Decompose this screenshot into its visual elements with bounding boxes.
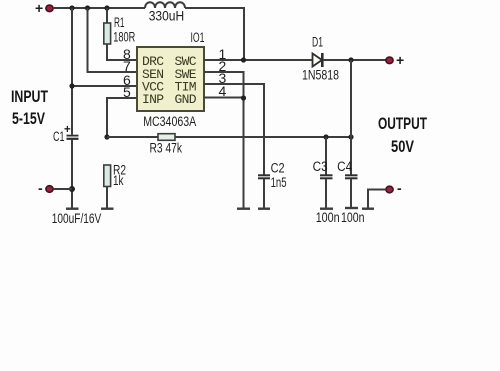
wire top rail left (53, 7, 145, 9)
ground bar pin2/4 (237, 207, 250, 209)
node junction pin1 / inductor (241, 57, 246, 62)
svg-text:C2: C2 (271, 161, 285, 176)
svg-text:C3: C3 (313, 159, 328, 174)
wire diode to output (323, 59, 390, 61)
wire pin 1 to diode (204, 59, 313, 61)
diode D1 (313, 53, 323, 67)
ground bar R2 (101, 207, 114, 209)
wire feedback right (175, 136, 351, 138)
ground bar C4 (345, 207, 358, 209)
node junction C1 / pin6 (69, 83, 74, 88)
svg-text:5-15V: 5-15V (12, 109, 45, 128)
input + terminal (46, 5, 53, 12)
svg-text:MC34063A: MC34063A (143, 114, 196, 129)
resistor R1 (104, 8, 137, 60)
svg-text:100n: 100n (316, 210, 340, 225)
capacitor C4 (345, 137, 358, 208)
ground bar C2 (258, 207, 270, 209)
node junction input minus (69, 186, 75, 192)
svg-text:INPUT: INPUT (11, 87, 48, 106)
svg-text:C4: C4 (337, 159, 352, 174)
svg-text:+: + (35, 0, 43, 16)
wire pin 3 to C2 (204, 84, 264, 175)
wire input minus (53, 188, 72, 190)
wire top rail right with corner down to pin 1 (185, 8, 244, 59)
node junction C4 / output sense (348, 134, 353, 139)
svg-text:C1: C1 (53, 129, 65, 144)
wire pin 4 (204, 97, 244, 99)
wire pin 6 from C1 node (72, 85, 137, 87)
capacitor C2 (258, 175, 270, 208)
node junction pin2 / pin4 (241, 95, 246, 100)
capacitor C3 (320, 137, 333, 208)
svg-text:IO1: IO1 (191, 30, 205, 45)
svg-text:5: 5 (123, 84, 131, 100)
node junction feedback (104, 134, 109, 139)
svg-text:R1: R1 (114, 15, 125, 30)
input - terminal (46, 186, 53, 193)
wire output sense (350, 60, 352, 137)
svg-text:1k: 1k (113, 173, 124, 188)
svg-text:GND: GND (175, 92, 197, 107)
svg-text:D1: D1 (312, 35, 323, 50)
svg-text:INP: INP (142, 92, 164, 107)
wire pin 7 from top rail (88, 8, 138, 72)
capacitor C1 (67, 8, 79, 208)
svg-text:50V: 50V (391, 137, 415, 156)
resistor R2 (104, 165, 111, 208)
svg-text:1n5: 1n5 (271, 175, 287, 190)
wire output minus (368, 190, 386, 209)
svg-text:+: + (396, 52, 404, 68)
svg-text:-: - (38, 180, 43, 196)
wire pin 5 to feedback node (107, 98, 137, 138)
resistor R3 (158, 134, 175, 141)
node junction C3 (323, 134, 328, 139)
output - terminal (386, 186, 393, 193)
IC pin names left column (142, 54, 164, 107)
node junction top rail / pin7 (85, 5, 90, 10)
IC U1 MC34063A body (137, 47, 204, 111)
IC pin names right column (175, 54, 197, 107)
inductor L 330uH (145, 2, 185, 8)
node junction top rail / C1 (69, 5, 74, 10)
output + terminal (386, 57, 393, 64)
svg-text:180R: 180R (113, 30, 135, 45)
svg-text:330uH: 330uH (149, 9, 185, 24)
svg-text:1N5818: 1N5818 (302, 68, 339, 83)
ground bar C3 (320, 207, 333, 209)
svg-text:100n: 100n (341, 210, 365, 225)
svg-text:OUTPUT: OUTPUT (378, 114, 427, 133)
ground bar output minus (362, 207, 374, 209)
svg-text:R3 47k: R3 47k (150, 141, 183, 156)
wire feedback left (107, 136, 158, 138)
node junction output (348, 57, 353, 62)
svg-text:+: + (64, 124, 71, 136)
svg-text:-: - (397, 180, 402, 196)
wire pin 2 down to ground (204, 72, 244, 208)
svg-text:100uF/16V: 100uF/16V (52, 211, 102, 226)
node junction top rail / R1 (104, 5, 109, 10)
ground bar C1 (66, 207, 79, 209)
